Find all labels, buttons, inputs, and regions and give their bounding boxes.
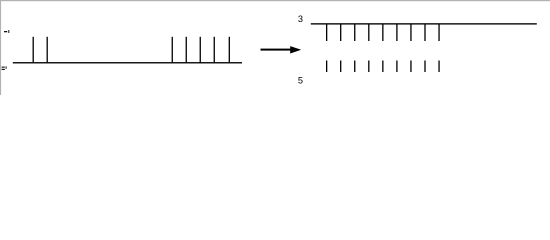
bottom base tick 3 [354, 61, 355, 73]
top base tick 9 [438, 24, 439, 41]
top base tick 3 [354, 24, 355, 41]
bottom base tick 5 [382, 61, 383, 73]
top base tick 4 [368, 24, 369, 41]
label 3' (top-left tiny) [4, 30, 9, 33]
bottom base tick 4 [368, 61, 369, 73]
top base tick 6 [396, 24, 397, 41]
tick B4 [214, 37, 215, 63]
arrow shaft [261, 49, 293, 51]
bottom base tick 7 [410, 61, 411, 73]
top strand line (right) [311, 23, 537, 24]
tick A2 [47, 37, 48, 63]
bottom base tick 1 [326, 61, 327, 73]
tick B1 [172, 37, 173, 63]
arrow head [290, 46, 301, 53]
top base tick 1 [326, 24, 327, 41]
top base tick 5 [382, 24, 383, 41]
svg-text:5: 5 [298, 76, 303, 86]
top base tick 7 [410, 24, 411, 41]
template strand line [13, 62, 242, 63]
tick B3 [200, 37, 201, 63]
top base tick 8 [424, 24, 425, 41]
bottom base tick 9 [438, 61, 439, 73]
svg-text:3: 3 [298, 14, 303, 24]
left border [0, 0, 1, 95]
tick B2 [186, 37, 187, 63]
top border [0, 0, 550, 1]
bottom base tick 8 [424, 61, 425, 73]
label 5' (bottom-left tiny) [2, 66, 7, 70]
tick B5 [229, 37, 230, 63]
tick A1 [33, 37, 34, 63]
top base tick 2 [340, 24, 341, 41]
bottom base tick 6 [396, 61, 397, 73]
bottom base tick 2 [340, 61, 341, 73]
